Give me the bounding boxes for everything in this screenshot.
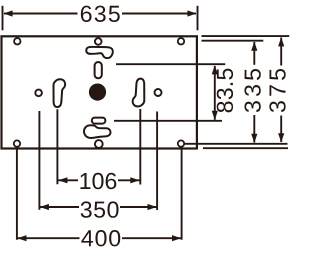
dim 635 right arrowhead: [187, 10, 196, 16]
right bean slot (rotated copy): [133, 79, 145, 107]
left bean slot: [54, 79, 66, 107]
dim 350 line left segment: [40, 206, 80, 208]
center knockout (filled): [89, 84, 106, 101]
dim 335 bottom arrowhead: [251, 134, 257, 143]
corner hole top-left: [14, 38, 20, 44]
bottom-center hole circle: [95, 140, 103, 148]
dim 375 top arrowhead: [278, 37, 284, 46]
dim 106 right arrowhead: [130, 177, 139, 183]
dim 400 right arrowhead: [172, 235, 181, 241]
center capsule slot: [95, 62, 102, 78]
dim 335 line lower segment: [253, 115, 255, 143]
dim 635 line left segment: [4, 13, 78, 15]
dim 83.5 top arrowhead: [212, 65, 218, 74]
dim 635 left extension line: [2, 6, 4, 31]
plate outline: [2, 36, 197, 148]
bottom small rounded-rect knockout: [92, 118, 106, 124]
dim 400 line right segment: [122, 237, 181, 239]
corner hole bottom-right: [178, 140, 184, 146]
right small hole: [155, 89, 162, 96]
dim 635 left arrowhead: [3, 10, 12, 16]
corner hole bottom-left: [14, 140, 20, 146]
label 350: [81, 201, 119, 217]
dim 106 line right segment: [118, 179, 140, 181]
ext line corner hole level bottom right (335 bottom): [185, 143, 288, 145]
ext line plate top to right (375 top): [202, 35, 290, 37]
ext line plate bottom to right (375 bottom): [203, 147, 288, 149]
ext line right small hole down (350 right): [156, 112, 158, 211]
dim 375 line lower segment: [280, 116, 282, 143]
dim 635 right extension line: [197, 6, 199, 31]
dim 400 left arrowhead: [17, 235, 26, 241]
dim 83.5 bottom arrowhead: [212, 111, 218, 120]
ext line right bean down (106 right): [139, 109, 141, 185]
dim 106 line left segment: [58, 179, 78, 181]
top wavy knockout: [86, 47, 112, 58]
ext line bottom-left corner hole down (400 left): [16, 146, 18, 239]
label 400: [81, 230, 120, 246]
dim 83.5 line: [214, 66, 216, 120]
dim 335 line upper segment: [253, 42, 255, 65]
ext line corner hole level to right (335 top): [202, 40, 264, 42]
label 106: [80, 173, 116, 189]
bottom wavy knockout: [84, 125, 111, 138]
ext line from bottom blob to right (83.5 bottom): [114, 120, 222, 122]
dim 350 right arrowhead: [148, 204, 157, 210]
label 83.5 (rotated): [217, 69, 233, 113]
dim 375 line upper segment: [280, 38, 282, 66]
label 375 (rotated): [269, 69, 285, 112]
left small hole: [35, 90, 42, 97]
dim 375 bottom arrowhead: [278, 133, 284, 142]
dim 350 line right segment: [120, 206, 157, 208]
dim 350 left arrowhead: [40, 204, 49, 210]
ext line from top wavy to right (83.5 top): [116, 63, 225, 65]
dim 106 left arrowhead: [58, 177, 67, 183]
dim 635 line right segment: [122, 13, 196, 15]
ext line left bean down (106 left): [56, 109, 58, 184]
label 635 glyphs: [81, 6, 120, 22]
dim 335 top arrowhead: [251, 42, 257, 51]
corner hole top-right: [178, 38, 184, 44]
ext line bottom-right corner hole down (400 right): [181, 148, 183, 240]
dim 400 line left segment: [17, 237, 79, 239]
top-center hole circle: [95, 38, 102, 45]
ext line left small hole down (350 left): [38, 111, 40, 210]
label 335 (rotated): [244, 69, 260, 112]
